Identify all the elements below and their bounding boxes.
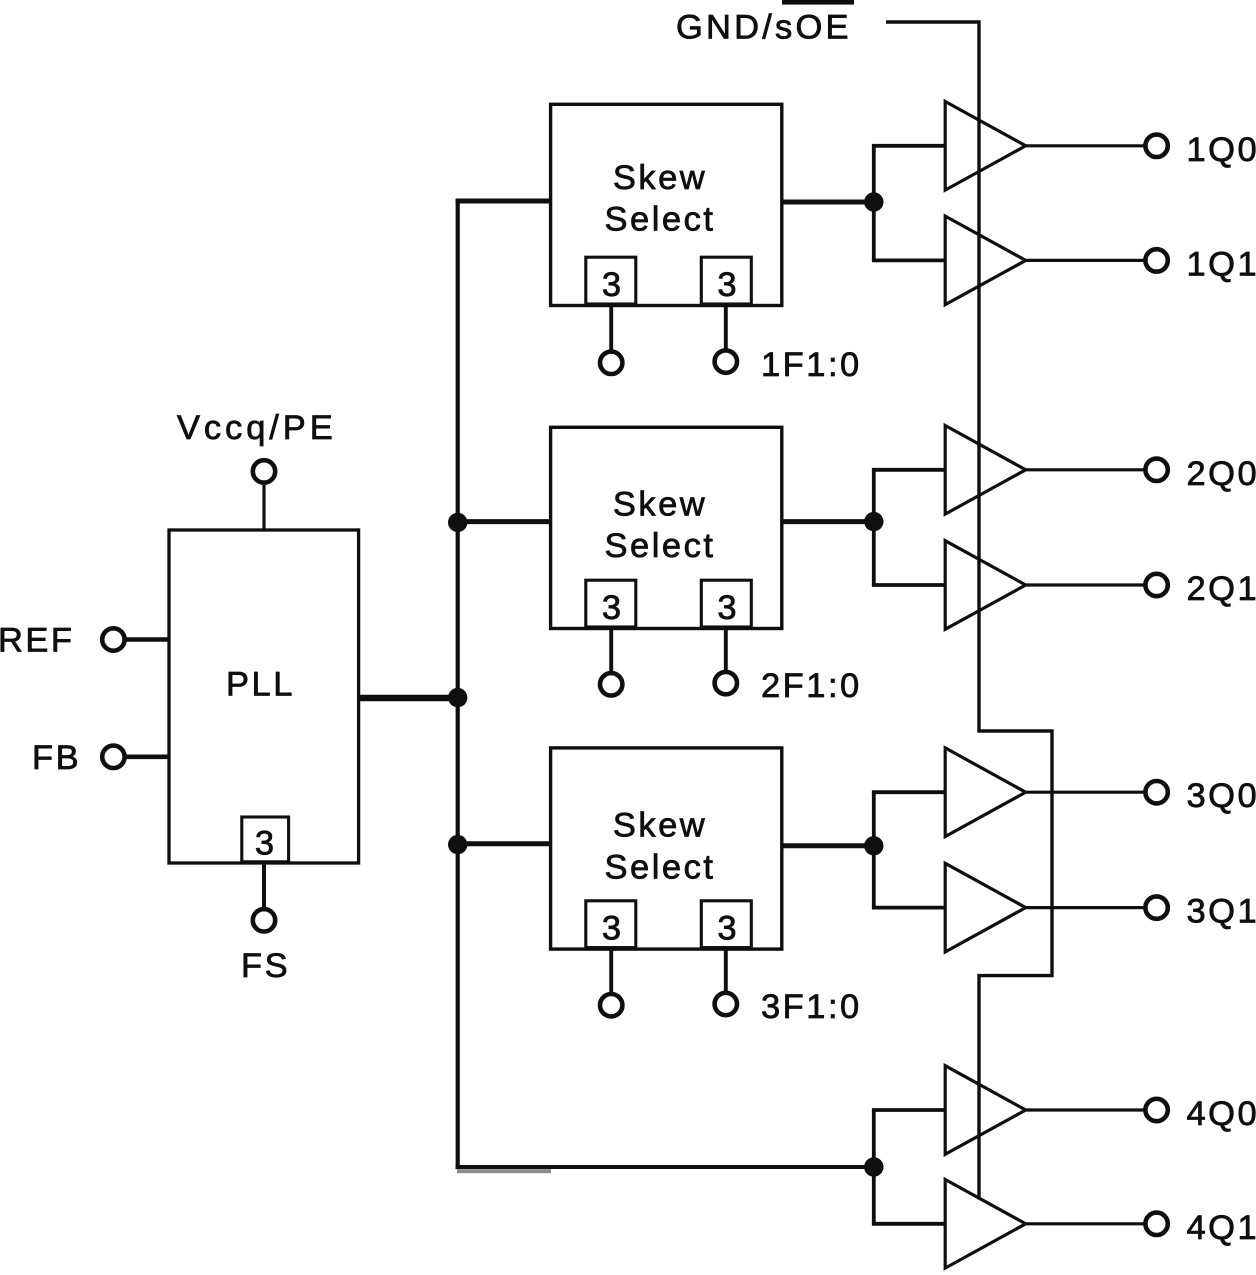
PLL FS bus-width box [3]: [242, 817, 289, 862]
wire: 2Q0 output: [1026, 468, 1146, 471]
svg-text:2Q1: 2Q1: [1187, 570, 1256, 608]
svg-text:GND/sOE: GND/sOE: [676, 9, 852, 47]
junction: bank 3 fanout node: [864, 836, 883, 855]
buffer amp 3Q0: [945, 748, 1025, 837]
wire: bus stub to Skew Select 3 input: [456, 841, 552, 846]
svg-text:Vccq/PE: Vccq/PE: [177, 409, 337, 447]
svg-text:Skew: Skew: [613, 806, 707, 844]
svg-text:Select: Select: [605, 527, 716, 565]
svg-text:PLL: PLL: [226, 666, 295, 704]
Skew Select 2 bus-width box [3] (right): [701, 580, 751, 627]
svg-text:3: 3: [717, 589, 736, 627]
pin wire: 1F select pin (right): [724, 306, 728, 351]
terminal 1Q1: [1145, 249, 1167, 271]
svg-text:3: 3: [602, 589, 621, 627]
Skew Select 3 bus-width box [3] (left): [586, 901, 636, 948]
junction: bank 1 fanout node: [864, 192, 883, 211]
wire: 3Q1 output: [1026, 906, 1146, 909]
svg-text:3: 3: [717, 910, 736, 948]
node: bank 4 input junction branch: [872, 1110, 876, 1224]
svg-text:FB: FB: [32, 739, 81, 777]
svg-text:1Q0: 1Q0: [1187, 131, 1256, 169]
buffer amp 3Q1: [945, 863, 1025, 952]
terminal 4Q1: [1145, 1213, 1167, 1235]
wire: 4Q0 output: [1026, 1108, 1146, 1111]
node: bank 2 input junction branch: [872, 470, 876, 585]
terminal 3Q0: [1145, 781, 1167, 803]
svg-text:3: 3: [255, 825, 274, 863]
terminal 3Q1: [1145, 896, 1167, 918]
svg-text:3: 3: [602, 910, 621, 948]
junction: bus to Skew Select 2: [448, 513, 467, 532]
wire: 4Q1 output: [1026, 1222, 1146, 1225]
svg-text:3Q1: 3Q1: [1187, 893, 1256, 931]
svg-text:Select: Select: [605, 200, 716, 238]
block: Skew Select 3: [551, 748, 782, 949]
pin wire: 2F select pin (right): [724, 629, 728, 673]
terminal 1Q0: [1145, 135, 1167, 157]
junction: bank 4 fanout node: [864, 1157, 883, 1176]
svg-text:FS: FS: [241, 947, 290, 985]
svg-text:1F1:0: 1F1:0: [761, 346, 862, 384]
buffer amp 4Q1: [945, 1180, 1025, 1269]
junction: bus to Skew Select 3: [448, 835, 467, 854]
Skew Select 3 bus-width box [3] (right): [701, 901, 751, 948]
Skew Select 1 bus-width box [3] (left): [586, 257, 636, 304]
svg-text:2Q0: 2Q0: [1187, 455, 1256, 493]
block: Skew Select 1: [551, 104, 782, 305]
wire: GND/sOE enable line routed through buffer banks: [886, 22, 1052, 1200]
svg-text:Select: Select: [605, 848, 716, 886]
junction: bank 2 fanout node: [864, 512, 883, 531]
wire: 1Q0 output: [1026, 144, 1146, 147]
svg-text:3F1:0: 3F1:0: [761, 988, 862, 1026]
svg-text:3: 3: [602, 266, 621, 304]
wire: bus stub to Skew Select 2 input: [456, 519, 552, 524]
svg-text:4Q0: 4Q0: [1187, 1095, 1256, 1133]
svg-text:3: 3: [717, 266, 736, 304]
svg-text:2F1:0: 2F1:0: [761, 667, 862, 705]
svg-text:Skew: Skew: [613, 159, 707, 197]
pin wire: 3F select pin (left): [609, 949, 613, 994]
svg-text:3Q0: 3Q0: [1187, 777, 1256, 815]
wire: PLL output clock bus (vertical): [456, 199, 460, 1169]
node: bank 1 input junction branch: [872, 146, 876, 261]
wire: Skew Select 3 output to buffer junction: [782, 843, 874, 848]
terminal 2Q1: [1145, 574, 1167, 596]
svg-text:1Q1: 1Q1: [1187, 245, 1256, 283]
node: bank 3 input junction branch: [872, 792, 876, 907]
svg-text:REF: REF: [0, 622, 75, 660]
wire: Skew Select 2 output to buffer junction: [782, 519, 874, 524]
block U1: PLL: [169, 530, 359, 863]
buffer amp 2Q1: [945, 541, 1025, 630]
buffer amp 4Q0: [945, 1066, 1025, 1155]
svg-text:Skew: Skew: [613, 486, 707, 524]
wire: 3Q0 output: [1026, 791, 1146, 794]
junction: PLL output node: [448, 688, 467, 707]
svg-text:4Q1: 4Q1: [1187, 1209, 1256, 1247]
buffer amp 1Q1: [945, 216, 1025, 305]
pin wire: 3F select pin (right): [724, 949, 728, 993]
block: Skew Select 2: [551, 427, 782, 628]
wire: Skew Select 1 output to buffer junction: [782, 200, 874, 205]
pin FS (frequency select, 3-bit): [262, 862, 266, 909]
terminal 4Q0: [1145, 1099, 1167, 1121]
pin wire: 1F select pin (left): [609, 306, 613, 353]
Skew Select 2 bus-width box [3] (left): [586, 580, 636, 627]
wire: 1Q1 output: [1026, 259, 1146, 262]
terminal 2Q0: [1145, 459, 1167, 481]
pin wire: 2F select pin (left): [609, 629, 613, 674]
buffer amp 1Q0: [945, 102, 1025, 191]
buffer amp 2Q0: [945, 426, 1025, 515]
wire: bus bottom run to output bank 4: [456, 1165, 874, 1169]
Skew Select 1 bus-width box [3] (right): [701, 257, 751, 304]
wire: PLL output to bus junction: [358, 695, 458, 702]
wire: bus stub to Skew Select 1 input: [456, 199, 552, 204]
wire: 2Q1 output: [1026, 583, 1146, 586]
